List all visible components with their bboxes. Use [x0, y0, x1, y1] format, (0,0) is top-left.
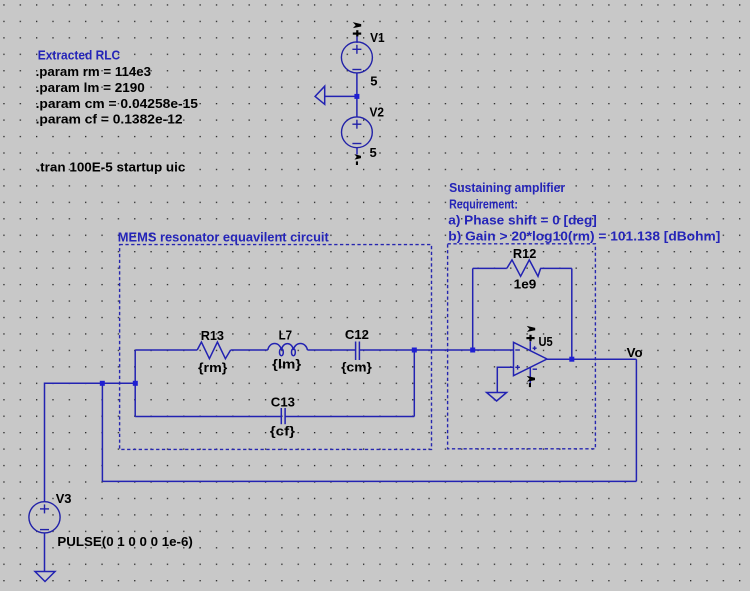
- svg-text:Requirement:: Requirement:: [449, 196, 518, 211]
- wire op-amp bottom power pin: [529, 368, 531, 384]
- wire L7 to C12: [307, 349, 355, 351]
- svg-text:C12: C12: [345, 327, 369, 342]
- capacitor C13 plates: [280, 408, 282, 424]
- svg-text:U5: U5: [539, 334, 553, 349]
- wire feedback bottom: [102, 480, 636, 482]
- voltage source V3 circle: [29, 502, 60, 533]
- svg-text:{lm}: {lm}: [272, 357, 301, 372]
- wire top branch R13 left lead: [135, 349, 197, 351]
- svg-text:5: 5: [370, 73, 377, 88]
- svg-text:R13: R13: [201, 328, 224, 343]
- svg-text:PULSE(0 1 0 0 0 1e-6): PULSE(0 1 0 0 0 1e-6): [57, 534, 192, 549]
- ground flag at V1/V2 midpoint (pointing left): [315, 86, 325, 104]
- resistor R12 zigzag: [507, 260, 541, 276]
- unconnected pin marker above V1: [353, 22, 362, 36]
- wire resonator right vertical: [413, 350, 415, 417]
- unconnected pin marker above op-amp V+: [526, 326, 535, 341]
- svg-text:.param cm = 0.04258e-15: .param cm = 0.04258e-15: [36, 96, 198, 111]
- svg-text:V1: V1: [370, 30, 385, 45]
- junction node V1/V2: [354, 94, 359, 99]
- svg-text:a) Phase shift = 0 [deg]: a) Phase shift = 0 [deg]: [448, 213, 597, 228]
- svg-text:.tran 100E-5 startup uic: .tran 100E-5 startup uic: [36, 159, 185, 174]
- op-amp U5 triangle: [514, 342, 548, 375]
- junction node A1: [100, 381, 105, 386]
- wire C12 to node B: [360, 349, 415, 351]
- junction node R12 left: [470, 348, 475, 353]
- inductor L7: [268, 344, 308, 350]
- wire op-amp plus input: [497, 367, 513, 392]
- unconnected pin marker below V2: [354, 154, 361, 165]
- wire left flag to junction: [325, 95, 357, 97]
- svg-text:V3: V3: [56, 491, 72, 506]
- svg-text:{cm}: {cm}: [341, 360, 372, 375]
- resistor R13 zigzag: [197, 342, 230, 359]
- wire V1 top pin: [356, 36, 358, 43]
- svg-text:1e9: 1e9: [514, 276, 537, 291]
- svg-text:{rm}: {rm}: [198, 360, 227, 375]
- junction node A2: [133, 381, 138, 386]
- svg-text:Sustaining amplifier: Sustaining amplifier: [449, 180, 565, 195]
- svg-text:.param lm = 2190: .param lm = 2190: [36, 80, 145, 95]
- wire V2 bottom pin: [356, 148, 358, 155]
- wire op-amp output: [547, 358, 636, 360]
- wire V3 top to node A: [45, 383, 136, 501]
- dashed box MEMS resonator: [120, 245, 432, 450]
- junction node output: [569, 357, 574, 362]
- wire bottom branch right: [285, 416, 414, 418]
- wire resonator left vertical: [134, 350, 136, 417]
- voltage source V2 circle: [342, 117, 373, 148]
- svg-text:b) Gain > 20*log10(rm) = 101.1: b) Gain > 20*log10(rm) = 101.138 [dBohm]: [448, 228, 720, 243]
- svg-text:{cf}: {cf}: [270, 424, 295, 439]
- wire R12 right lead: [540, 267, 572, 269]
- op-amp U5 input polarity labels: [515, 346, 537, 369]
- junction node B: [412, 348, 417, 353]
- wire node B to op-amp minus input: [414, 349, 513, 351]
- svg-text:C13: C13: [271, 394, 295, 409]
- wire feedback vertical right: [635, 359, 637, 481]
- capacitor C12 plates: [355, 342, 357, 361]
- wire R12 right vertical: [571, 268, 573, 359]
- wire R12 left lead: [473, 267, 507, 269]
- svg-text:MEMS resonator equavilent circ: MEMS resonator equavilent circuit: [118, 229, 330, 244]
- voltage source V1 circle: [341, 42, 372, 73]
- wire R12 left vertical: [472, 268, 474, 350]
- svg-text:L7: L7: [279, 327, 293, 342]
- svg-text:5: 5: [370, 145, 377, 160]
- svg-text:.param rm = 114e3: .param rm = 114e3: [36, 64, 151, 79]
- wire V3 bottom to ground: [44, 533, 46, 572]
- ground flag below V3: [35, 572, 55, 582]
- unconnected pin marker below op-amp V-: [527, 376, 535, 387]
- wire R13 to L7: [231, 349, 268, 351]
- wire bottom branch left: [135, 416, 281, 418]
- wire op-amp top power pin: [529, 341, 531, 350]
- svg-text:V2: V2: [370, 105, 385, 120]
- ground flag below op-amp plus input: [487, 393, 507, 402]
- svg-text:.param cf = 0.1382e-12: .param cf = 0.1382e-12: [36, 112, 183, 127]
- svg-text:Extracted RLC: Extracted RLC: [38, 47, 121, 62]
- svg-text:R12: R12: [513, 246, 536, 261]
- svg-text:Vo: Vo: [627, 345, 643, 360]
- wire V1 to junction: [356, 73, 358, 117]
- wire feedback vertical left: [101, 383, 103, 481]
- dashed box sustaining amplifier: [448, 244, 596, 449]
